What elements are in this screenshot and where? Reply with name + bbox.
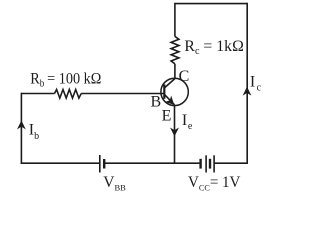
wire top horizontal [175,3,247,5]
battery VCC short plate 1 [199,159,201,169]
svg-text:E: E [162,108,172,125]
resistor RC zigzag [171,36,179,63]
transistor Q1 circle [161,78,188,105]
wire base horizontal right segment to base bar [81,93,164,95]
svg-text:Ib: Ib [29,122,39,143]
current arrow IC (up) [244,88,251,95]
transistor Q1 collector diagonal [164,79,175,88]
wire collector top vertical [174,3,176,37]
svg-text:Ie: Ie [182,112,193,132]
svg-text:C: C [179,68,190,85]
resistor Rb zigzag [55,90,82,99]
battery VBB short plate [103,159,105,169]
wire bottom left segment [21,162,100,164]
label Rb = 100 kOhm [30,71,101,90]
wire right vertical [246,3,248,163]
battery VBB long plate [99,155,101,173]
svg-text:B: B [151,94,162,111]
current arrow Ie (down) [171,129,178,136]
battery VCC short plate 2 [209,159,211,169]
svg-text:VCC= 1V: VCC= 1V [188,174,240,193]
battery VCC long plate 2 [213,155,215,172]
wire left vertical [20,93,22,164]
svg-text:Rb = 100 kΩ: Rb = 100 kΩ [30,71,101,90]
svg-text:Ic: Ic [250,73,262,93]
wire bottom middle segment [104,162,200,164]
transistor Q1 base bar [163,84,165,98]
svg-text:VBB: VBB [103,174,126,193]
label RC = 1kOhm [184,38,243,57]
wire emitter vertical [174,105,176,163]
transistor Q1 emitter diagonal [164,94,174,105]
wire collector to transistor [174,64,176,79]
current arrow Ib (up) [18,121,25,128]
wire base horizontal left segment [21,93,54,95]
label VCC = 1V [188,174,240,193]
transistor Q1 emitter arrowhead [166,97,173,104]
svg-text:Rc = 1kΩ: Rc = 1kΩ [184,38,243,57]
battery VCC long plate 1 [205,155,207,172]
wire bottom right segment [214,162,248,164]
